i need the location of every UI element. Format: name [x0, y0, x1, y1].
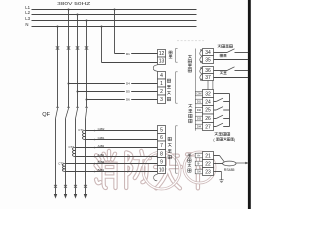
svg-text:27: 27	[205, 124, 211, 130]
svg-text:1: 1	[160, 81, 163, 87]
svg-text:D1: D1	[126, 52, 130, 56]
svg-text:DI1: DI1	[197, 100, 202, 104]
svg-text:24: 24	[205, 99, 211, 105]
svg-text:C4B2: C4B2	[98, 127, 105, 131]
svg-text:D6: D6	[126, 98, 130, 102]
svg-text:21: 21	[205, 153, 211, 159]
svg-text:5: 5	[160, 127, 163, 133]
svg-text:6: 6	[160, 135, 163, 141]
svg-text:26: 26	[205, 116, 211, 122]
svg-text:13: 13	[159, 59, 165, 65]
svg-text:37: 37	[205, 75, 211, 81]
svg-text:(: (	[213, 138, 215, 142]
svg-text:DI4: DI4	[197, 125, 202, 129]
svg-text:12: 12	[159, 51, 165, 57]
svg-text:7: 7	[160, 143, 163, 149]
svg-text:C4B1: C4B1	[98, 136, 105, 140]
svg-text:9: 9	[160, 159, 163, 165]
svg-text:N: N	[25, 22, 28, 27]
svg-text:DI3: DI3	[197, 117, 202, 121]
svg-text:8: 8	[160, 151, 163, 157]
svg-text:CT3: CT3	[58, 161, 64, 165]
svg-text:B4B2: B4B2	[98, 160, 105, 164]
svg-text:A+: A+	[197, 155, 201, 158]
svg-text:SH: SH	[197, 171, 201, 174]
svg-text:): )	[234, 138, 235, 142]
svg-text:RS485: RS485	[224, 168, 235, 172]
svg-text:36: 36	[205, 68, 211, 74]
svg-text:380V 50HZ: 380V 50HZ	[57, 1, 90, 6]
svg-text:B4B1: B4B1	[98, 168, 105, 172]
svg-text:L2: L2	[25, 10, 30, 15]
svg-text:DI2: DI2	[197, 108, 202, 112]
svg-text:L3: L3	[25, 16, 30, 21]
svg-text:2: 2	[160, 89, 163, 95]
svg-text:CT2: CT2	[69, 145, 75, 149]
svg-text:A4B1: A4B1	[98, 153, 105, 157]
svg-text:D5: D5	[126, 90, 130, 94]
svg-text:CT1: CT1	[78, 128, 84, 132]
svg-text:25: 25	[205, 108, 211, 114]
svg-text:35: 35	[205, 57, 211, 63]
svg-text:D4: D4	[126, 82, 130, 86]
svg-text:B-: B-	[198, 163, 201, 166]
svg-text:34: 34	[205, 50, 211, 56]
svg-text:32: 32	[205, 91, 211, 97]
svg-text:10: 10	[159, 167, 165, 173]
svg-text:3: 3	[160, 97, 163, 103]
svg-text:A4B2: A4B2	[98, 144, 105, 148]
svg-text:22: 22	[205, 161, 211, 167]
svg-text:23: 23	[205, 169, 211, 175]
svg-text:4: 4	[160, 73, 163, 79]
svg-text:COM: COM	[196, 94, 201, 96]
svg-text:QF: QF	[42, 112, 50, 118]
